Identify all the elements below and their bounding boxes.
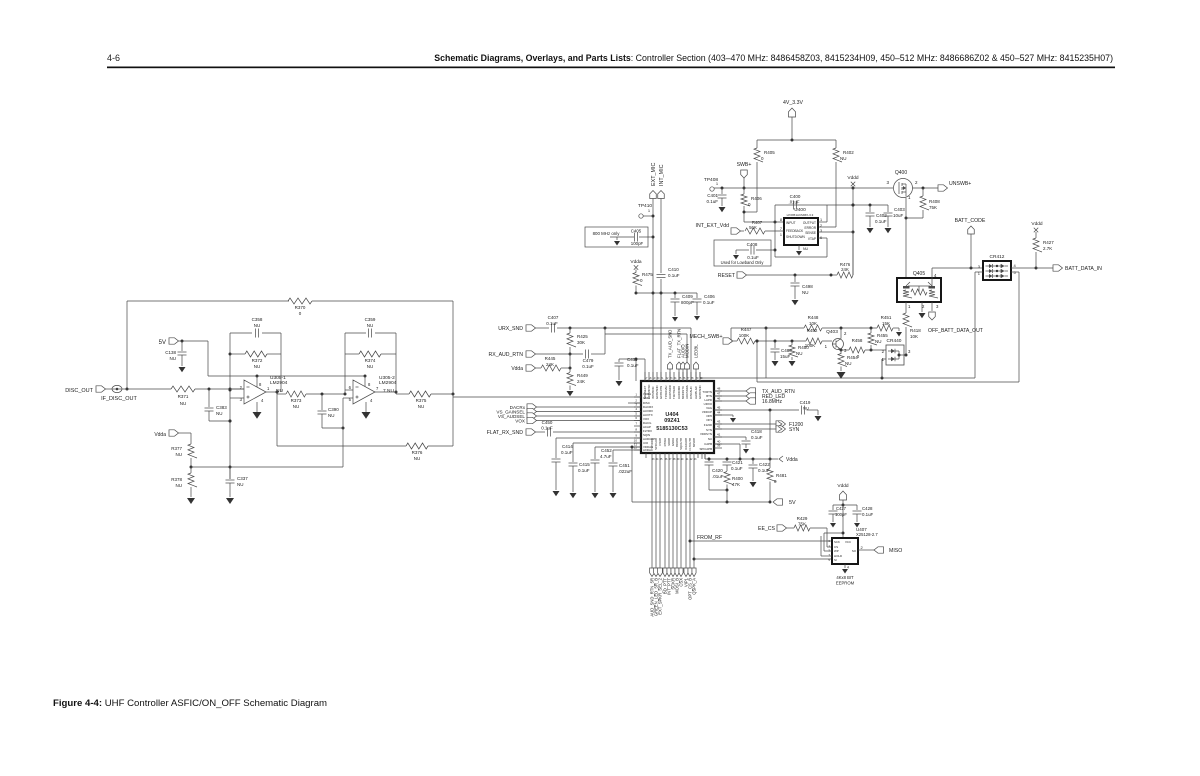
svg-text:43: 43	[717, 420, 721, 424]
svg-text:.01uF: .01uF	[789, 200, 800, 205]
svg-text:CR440: CR440	[887, 338, 902, 344]
svg-text:LEDBL: LEDBL	[694, 344, 699, 358]
svg-text:BATT_DATA_IN: BATT_DATA_IN	[1065, 266, 1102, 272]
svg-text:R429: R429	[797, 516, 808, 521]
svg-text:C359: C359	[365, 317, 376, 322]
svg-text:0.1uF: 0.1uF	[546, 321, 558, 326]
svg-text:SPICAPB: SPICAPB	[699, 447, 712, 451]
svg-text:RESET: RESET	[718, 273, 736, 279]
svg-text:4Kx8 BIT: 4Kx8 BIT	[836, 575, 854, 580]
svg-text:C383: C383	[216, 405, 227, 410]
svg-text:SWB+: SWB+	[737, 162, 752, 168]
svg-text:4-6: 4-6	[107, 53, 120, 63]
svg-text:LP2951ACMMX-3.3: LP2951ACMMX-3.3	[787, 213, 814, 217]
svg-text:C407: C407	[548, 315, 559, 320]
svg-text:TXRTNAD: TXRTNAD	[672, 386, 676, 399]
svg-text:INT_EXT_Vdd: INT_EXT_Vdd	[696, 223, 730, 229]
svg-text:4.7uF: 4.7uF	[600, 454, 612, 459]
svg-text:NU: NU	[367, 323, 374, 328]
svg-text:GCB0SND: GCB0SND	[698, 385, 702, 399]
svg-text:0.1uF: 0.1uF	[862, 512, 874, 517]
svg-text:NU: NU	[840, 156, 847, 161]
svg-text:R458: R458	[852, 338, 863, 343]
svg-text:7 NU: 7 NU	[383, 388, 394, 394]
svg-text:C422: C422	[759, 462, 770, 467]
svg-text:R373: R373	[291, 398, 302, 403]
svg-text:F1200: F1200	[704, 423, 713, 427]
svg-text:R427: R427	[1043, 240, 1054, 245]
svg-text:100K: 100K	[739, 333, 750, 338]
svg-text:FROM_RF: FROM_RF	[697, 535, 722, 541]
svg-text:NU: NU	[418, 404, 425, 409]
svg-text:UNSWB+: UNSWB+	[949, 181, 971, 187]
svg-text:GCB1RTN: GCB1RTN	[659, 386, 663, 399]
svg-text:R448: R448	[808, 315, 819, 320]
svg-text:5185130C53: 5185130C53	[656, 426, 688, 432]
svg-text:800pF: 800pF	[681, 300, 694, 305]
svg-text:NU: NU	[176, 483, 183, 488]
svg-text:SI: SI	[834, 558, 837, 562]
svg-text:NU: NU	[796, 351, 803, 356]
svg-text:.01uF: .01uF	[712, 474, 724, 479]
svg-text:1: 1	[780, 233, 782, 237]
svg-text:Q403: Q403	[826, 329, 838, 335]
svg-text:NU: NU	[875, 339, 882, 344]
svg-text:0.1uF: 0.1uF	[706, 199, 718, 204]
svg-text:C403: C403	[894, 207, 905, 212]
svg-text:42: 42	[717, 425, 721, 429]
svg-text:NU: NU	[845, 361, 852, 366]
svg-text:NU: NU	[803, 247, 809, 251]
svg-text:Vdda: Vdda	[786, 457, 798, 463]
svg-text:SYN: SYN	[789, 427, 800, 433]
svg-text:30K: 30K	[577, 340, 585, 345]
svg-text:R375: R375	[416, 398, 427, 403]
svg-text:0.1uF: 0.1uF	[668, 273, 680, 278]
svg-text:TX_AUD_SND: TX_AUD_SND	[668, 330, 673, 358]
svg-text:C451: C451	[619, 463, 630, 468]
svg-text:C337: C337	[237, 476, 248, 481]
svg-text:MECH_SWB+: MECH_SWB+	[689, 334, 722, 340]
svg-text:CAPB: CAPB	[704, 442, 712, 446]
svg-text:15uF: 15uF	[780, 354, 791, 359]
svg-text:15K: 15K	[882, 321, 890, 326]
svg-text:Q400: Q400	[895, 170, 907, 176]
svg-text:NU: NU	[216, 411, 223, 416]
svg-text:R418: R418	[910, 328, 921, 333]
svg-text:Vdda: Vdda	[630, 259, 642, 265]
svg-text:0.1uF: 0.1uF	[561, 450, 573, 455]
svg-text:Figure 4-4: UHF Controller ASF: Figure 4-4: UHF Controller ASFIC/ON_OFF …	[53, 698, 327, 709]
svg-text:5V: 5V	[159, 340, 166, 346]
svg-text:R376: R376	[412, 450, 423, 455]
svg-text:16.8MHz: 16.8MHz	[762, 399, 783, 405]
svg-text:4V_3.3V: 4V_3.3V	[783, 100, 803, 106]
svg-text:R447: R447	[741, 327, 752, 332]
svg-text:WP: WP	[834, 549, 839, 553]
svg-text:C421: C421	[732, 460, 743, 465]
svg-text:3: 3	[820, 229, 822, 233]
svg-text:NU: NU	[254, 323, 261, 328]
svg-text:SENSE: SENSE	[805, 231, 816, 235]
svg-text:C452: C452	[601, 448, 612, 453]
svg-text:FLAT_RX_SND: FLAT_RX_SND	[487, 430, 523, 436]
svg-text:10K: 10K	[910, 334, 918, 339]
svg-text:Q405: Q405	[913, 271, 925, 277]
svg-text:C419: C419	[800, 400, 811, 405]
svg-text:41: 41	[717, 433, 721, 437]
svg-text:R408: R408	[929, 199, 940, 204]
svg-text:2.7K: 2.7K	[1043, 246, 1052, 251]
svg-text:NU: NU	[254, 364, 261, 369]
svg-text:IF_DISC_OUT: IF_DISC_OUT	[101, 396, 137, 402]
svg-text:ERROR: ERROR	[804, 226, 816, 230]
svg-text:TP410: TP410	[638, 203, 652, 209]
svg-text:0.1uF: 0.1uF	[731, 466, 743, 471]
svg-text:C410: C410	[668, 267, 679, 272]
svg-text:NU: NU	[176, 452, 183, 457]
svg-text:X25128-2.7: X25128-2.7	[856, 532, 878, 537]
svg-text:75K: 75K	[798, 522, 806, 527]
svg-text:C414: C414	[562, 444, 573, 449]
svg-text:R402: R402	[843, 150, 854, 155]
svg-text:EE_CS: EE_CS	[758, 526, 776, 532]
svg-text:URX_SND: URX_SND	[498, 326, 523, 332]
svg-text:0.1uF: 0.1uF	[751, 435, 763, 440]
svg-text:46: 46	[717, 397, 721, 401]
svg-text:C406: C406	[704, 294, 715, 299]
svg-text:4: 4	[847, 566, 849, 570]
svg-text:Schematic Diagrams, Overlays,: Schematic Diagrams, Overlays, and Parts …	[434, 53, 1113, 63]
svg-text:NU: NU	[367, 364, 374, 369]
svg-text:44: 44	[717, 411, 721, 415]
svg-text:SQOUTB: SQOUTB	[679, 438, 683, 450]
svg-text:INPUT: INPUT	[786, 221, 796, 225]
svg-text:24K: 24K	[577, 379, 585, 384]
svg-text:47: 47	[717, 392, 721, 396]
svg-text:MISOB: MISOB	[692, 438, 696, 447]
svg-text:NU: NU	[802, 290, 809, 295]
svg-text:R481: R481	[776, 473, 787, 478]
svg-text:NU: NU	[180, 401, 187, 406]
svg-text:C358: C358	[252, 317, 263, 322]
svg-text:R405: R405	[764, 150, 775, 155]
svg-text:10K: 10K	[809, 321, 817, 326]
svg-text:R452: R452	[807, 328, 818, 333]
svg-text:C420: C420	[712, 468, 723, 473]
svg-text:VOX: VOX	[515, 419, 525, 424]
svg-text:0.1uF: 0.1uF	[578, 468, 590, 473]
svg-text:R475: R475	[642, 272, 653, 277]
svg-text:EXT_MIC: EXT_MIC	[651, 163, 657, 186]
svg-text:C498: C498	[802, 284, 813, 289]
svg-text:C400: C400	[790, 194, 801, 199]
svg-text:SCK: SCK	[834, 540, 840, 544]
svg-text:R451: R451	[881, 315, 892, 320]
svg-text:R406: R406	[751, 196, 762, 201]
svg-text:NU: NU	[328, 413, 335, 418]
svg-text:R374: R374	[365, 358, 376, 363]
svg-text:C427: C427	[836, 506, 847, 511]
svg-text:SHUTDOWN: SHUTDOWN	[786, 235, 805, 239]
svg-text:QSPK_A: QSPK_A	[692, 578, 697, 595]
svg-text:RX_AUD_RTN: RX_AUD_RTN	[489, 352, 524, 358]
svg-text:09Z41: 09Z41	[664, 418, 680, 424]
svg-text:8: 8	[780, 218, 782, 222]
svg-text:NU: NU	[708, 437, 712, 441]
svg-text:NU: NU	[237, 482, 244, 487]
svg-text:C405: C405	[631, 229, 642, 234]
svg-text:R370: R370	[295, 305, 306, 310]
svg-text:C401: C401	[707, 193, 718, 198]
svg-text:BATT_CODE: BATT_CODE	[955, 218, 986, 224]
svg-text:7: 7	[780, 227, 782, 231]
svg-text:C408: C408	[747, 242, 758, 247]
svg-text:LM2904: LM2904	[270, 380, 288, 386]
svg-text:C428: C428	[862, 506, 873, 511]
svg-text:C411: C411	[627, 357, 638, 362]
svg-text:100pF: 100pF	[835, 512, 847, 517]
svg-text:24K: 24K	[546, 362, 554, 367]
svg-text:MODIN: MODIN	[685, 344, 690, 358]
svg-text:NU: NU	[803, 406, 809, 411]
svg-text:10uF: 10uF	[893, 213, 904, 218]
svg-text:0.1uF: 0.1uF	[541, 426, 553, 431]
svg-text:R378: R378	[171, 477, 182, 482]
svg-text:C138: C138	[165, 350, 176, 355]
svg-text:NU: NU	[293, 404, 300, 409]
svg-text:MISO: MISO	[889, 548, 902, 554]
svg-text:FEEDBACK: FEEDBACK	[786, 229, 804, 233]
svg-text:C409: C409	[682, 294, 693, 299]
svg-text:C402: C402	[876, 213, 887, 218]
svg-text:0.1uF: 0.1uF	[703, 300, 715, 305]
svg-text:OUTPUT: OUTPUT	[803, 221, 816, 225]
svg-text:OP1: OP1	[706, 418, 712, 422]
svg-text:R377: R377	[171, 446, 182, 451]
svg-text:Vdda: Vdda	[511, 366, 523, 372]
svg-text:45: 45	[717, 406, 721, 410]
svg-text:Vddd: Vddd	[837, 483, 849, 489]
svg-text:C415: C415	[579, 462, 590, 467]
svg-text:.022uF: .022uF	[618, 469, 632, 474]
svg-text:LM2904: LM2904	[379, 380, 397, 386]
svg-text:CR412: CR412	[990, 254, 1005, 260]
svg-text:12: 12	[634, 446, 638, 450]
svg-text:VCC: VCC	[845, 540, 851, 544]
svg-text:24K: 24K	[841, 267, 849, 272]
svg-text:DISCAUD: DISCAUD	[689, 386, 693, 399]
svg-text:Vddd: Vddd	[1031, 221, 1043, 227]
svg-text:R450: R450	[798, 345, 809, 350]
svg-text:EEPROM: EEPROM	[836, 581, 855, 586]
svg-text:0.1uF: 0.1uF	[582, 364, 594, 369]
svg-text:R455: R455	[877, 333, 888, 338]
svg-text:C418: C418	[751, 429, 762, 434]
svg-text:C450: C450	[542, 420, 553, 425]
svg-text:800 MHz only: 800 MHz only	[593, 231, 621, 236]
svg-text:R400: R400	[732, 476, 743, 481]
svg-text:NU: NU	[170, 356, 177, 361]
svg-text:R445: R445	[545, 356, 556, 361]
svg-text:Vdda: Vdda	[154, 432, 166, 438]
svg-text:NU: NU	[414, 456, 421, 461]
svg-text:DISC_OUT: DISC_OUT	[65, 388, 93, 394]
svg-text:R371: R371	[178, 394, 189, 399]
svg-text:VTAP: VTAP	[808, 237, 816, 241]
svg-text:R372: R372	[252, 358, 263, 363]
svg-text:Vddd: Vddd	[847, 175, 859, 181]
svg-text:R425: R425	[577, 334, 588, 339]
svg-text:5V: 5V	[789, 500, 796, 506]
svg-text:R449: R449	[577, 373, 588, 378]
svg-text:0.1uF: 0.1uF	[627, 363, 639, 368]
svg-text:VDDSYN: VDDSYN	[700, 432, 712, 436]
svg-text:2: 2	[820, 224, 822, 228]
svg-text:100pF: 100pF	[631, 241, 644, 246]
svg-text:75K: 75K	[929, 205, 937, 210]
svg-text:Used for Lowband Only: Used for Lowband Only	[721, 260, 765, 265]
svg-text:CSXB: CSXB	[658, 438, 662, 446]
svg-text:56K: 56K	[749, 225, 757, 230]
svg-text:0.1uF: 0.1uF	[758, 468, 770, 473]
svg-text:1: 1	[820, 218, 822, 222]
svg-text:48: 48	[717, 387, 721, 391]
svg-text:C479: C479	[583, 358, 594, 363]
svg-text:47K: 47K	[732, 482, 740, 487]
svg-text:INT_MIC: INT_MIC	[659, 164, 665, 186]
svg-text:C390: C390	[328, 407, 339, 412]
svg-text:0.1uF: 0.1uF	[875, 219, 887, 224]
